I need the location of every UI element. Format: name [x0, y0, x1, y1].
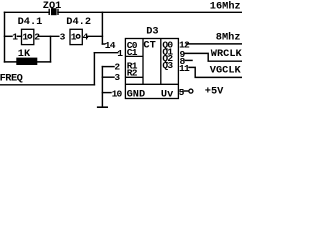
- wire D3 pin 12 output 8Mhz: [187, 43, 243, 45]
- svg-text:16Mhz: 16Mhz: [210, 1, 241, 13]
- counter D3 box: [125, 39, 178, 99]
- svg-text:D4.2: D4.2: [66, 16, 91, 28]
- svg-text:D4.1: D4.1: [18, 16, 43, 28]
- wire D3 pin 11 output VGCLK: [189, 67, 242, 77]
- wire D3 pin 5 power: [183, 90, 189, 92]
- wire D4.2 output pin 4: [87, 35, 102, 37]
- svg-text:D3: D3: [146, 26, 158, 38]
- svg-text:WRCLK: WRCLK: [211, 48, 242, 60]
- wire D4.1 output pin 2 to D4.2 input pin 3: [38, 35, 59, 37]
- svg-text:GND: GND: [127, 88, 146, 100]
- wire FREQ net to D3 pin 1: [94, 52, 117, 54]
- svg-text:Q3: Q3: [162, 60, 173, 71]
- svg-text:+5V: +5V: [205, 86, 224, 98]
- svg-text:14: 14: [105, 40, 116, 51]
- wire FREQ net horizontal to left edge: [0, 84, 94, 86]
- wire pin1 glyph to D4.1 box: [17, 35, 21, 37]
- wire top 16Mhz net left segment: [5, 11, 50, 13]
- svg-text:Uv: Uv: [161, 88, 173, 100]
- inverter D4.1 box: [22, 29, 34, 44]
- inverter D4.2 box: [70, 29, 82, 44]
- crystal ZQ1 body: [49, 8, 58, 15]
- wire left vertical from top net down to resistor: [4, 12, 6, 62]
- inverter D4.2 output bubble: [76, 35, 80, 39]
- wire junction vertical D4.1 output to resistor: [50, 36, 52, 62]
- wire FREQ net vertical: [93, 53, 95, 85]
- resistor 1K body: [16, 58, 37, 65]
- counter D3 internal divider left: [142, 39, 144, 85]
- wire D3 pin 3 R2: [102, 76, 114, 78]
- wire D3 pin 9 output WRCLK: [185, 53, 242, 61]
- ground symbol bar: [98, 106, 108, 108]
- counter D3 divider under R2: [125, 76, 143, 78]
- svg-text:VGCLK: VGCLK: [210, 65, 242, 77]
- wire D3 pin 8 stub: [185, 59, 192, 61]
- wire ground vertical: [101, 67, 103, 107]
- wire D3 pin 2 R1: [102, 66, 114, 68]
- power connector circle +5V: [189, 89, 193, 93]
- svg-text:ZQ1: ZQ1: [43, 0, 62, 12]
- svg-text:8Mhz: 8Mhz: [216, 31, 241, 43]
- wire resistor row: [5, 61, 51, 63]
- inverter D4.1 output bubble: [28, 35, 32, 39]
- counter D3 internal divider right: [160, 39, 162, 85]
- svg-text:R2: R2: [127, 68, 138, 79]
- wire D4.1 input pin 1: [5, 35, 13, 37]
- wire D3 pin 10 GND: [102, 92, 111, 94]
- svg-text:FREQ: FREQ: [0, 72, 23, 84]
- svg-text:1K: 1K: [18, 48, 31, 60]
- wire to D3 pin 14: [102, 43, 104, 45]
- wire top 16Mhz net right segment: [58, 11, 242, 13]
- svg-text:C1: C1: [127, 47, 138, 58]
- svg-text:CT: CT: [143, 40, 155, 52]
- svg-text:11: 11: [179, 63, 190, 74]
- counter D3 power row divider: [125, 83, 178, 85]
- counter D3 divider under C1: [125, 55, 143, 57]
- svg-text:10: 10: [112, 88, 123, 99]
- wire vertical D4.2 output to top net and down to D3 C0: [101, 12, 103, 44]
